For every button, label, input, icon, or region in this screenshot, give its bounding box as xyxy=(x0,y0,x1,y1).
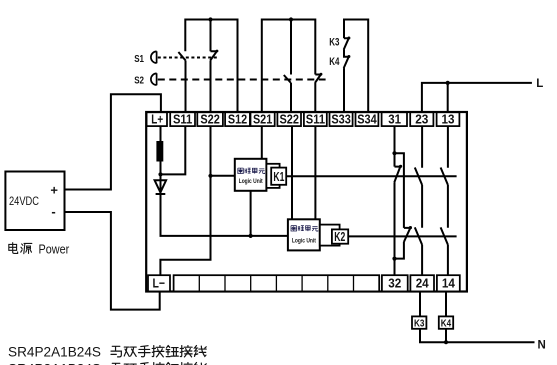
svg-text:Logic Unit: Logic Unit xyxy=(239,178,263,185)
svg-text:S2: S2 xyxy=(134,74,144,86)
svg-text:K4: K4 xyxy=(441,318,452,330)
svg-text:K1: K1 xyxy=(273,169,284,184)
svg-text:23: 23 xyxy=(415,112,428,127)
svg-text:S1: S1 xyxy=(134,53,144,65)
svg-text:S11: S11 xyxy=(306,112,325,127)
svg-text:K3: K3 xyxy=(329,36,339,48)
svg-text:S11: S11 xyxy=(173,112,192,127)
svg-text:SR4P2A1B24S: SR4P2A1B24S xyxy=(8,345,101,360)
svg-text:L−: L− xyxy=(153,276,166,291)
svg-text:32: 32 xyxy=(388,276,401,291)
svg-text:13: 13 xyxy=(442,112,455,127)
svg-text:-: - xyxy=(51,204,55,219)
svg-text:24: 24 xyxy=(416,276,430,291)
svg-text:K4: K4 xyxy=(329,56,340,68)
svg-text:24VDC: 24VDC xyxy=(9,196,39,208)
svg-text:S22: S22 xyxy=(200,112,220,127)
svg-text:Logic Unit: Logic Unit xyxy=(292,238,316,245)
svg-text:S21: S21 xyxy=(253,112,272,127)
svg-text:S22: S22 xyxy=(279,112,299,127)
svg-text:S34: S34 xyxy=(357,112,377,127)
svg-text:S12: S12 xyxy=(228,112,247,127)
svg-text:Power: Power xyxy=(39,242,70,256)
svg-text:L+: L+ xyxy=(151,112,163,127)
svg-text:+: + xyxy=(50,182,58,197)
svg-text:K2: K2 xyxy=(334,229,345,244)
svg-text:31: 31 xyxy=(388,112,401,127)
svg-text:N: N xyxy=(538,340,546,352)
svg-text:S33: S33 xyxy=(331,112,351,127)
svg-text:K3: K3 xyxy=(414,318,425,330)
svg-text:L: L xyxy=(536,78,543,90)
svg-text:14: 14 xyxy=(442,276,456,291)
svg-text:SR4P2A1B24S: SR4P2A1B24S xyxy=(8,361,101,365)
